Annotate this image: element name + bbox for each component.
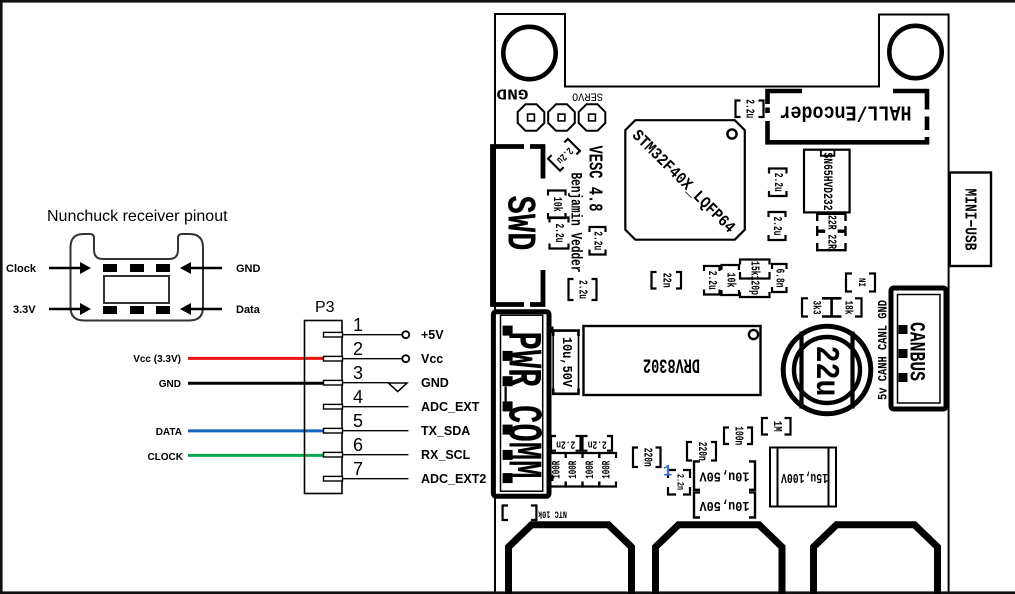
svg-text:1M: 1M bbox=[770, 421, 783, 432]
PWR_COMM pad 4 bbox=[503, 401, 513, 411]
FET pad 3 bbox=[814, 525, 938, 594]
PWR_COMM pad 3 bbox=[503, 376, 513, 386]
svg-text:GND: GND bbox=[421, 376, 449, 390]
wire pin5 bbox=[343, 430, 409, 432]
thermistor NTC 10k bbox=[503, 506, 567, 521]
U1 pin1 dot bbox=[727, 129, 736, 138]
C-22u side chords bbox=[802, 332, 853, 409]
arrow data bbox=[191, 308, 222, 310]
U3 SN65HVD232 body bbox=[804, 150, 850, 213]
capacitor 2.2n (b) bbox=[583, 436, 613, 451]
resistor 10k (right of SWD) bbox=[548, 191, 566, 219]
FET pad 2 bbox=[656, 525, 783, 594]
svg-text:GND: GND bbox=[159, 379, 181, 390]
U2 pin1 dot bbox=[749, 330, 758, 339]
nunchuck connector body bbox=[71, 234, 204, 321]
connector CANBUS inner bbox=[898, 295, 941, 404]
svg-text:+5V: +5V bbox=[421, 328, 444, 342]
wire CLOCK green bbox=[188, 454, 325, 457]
capacitor 2.2n (a) bbox=[551, 436, 581, 451]
capacitor 2.2u (rotated 45, below servo) bbox=[548, 139, 580, 171]
wire GND black bbox=[188, 382, 325, 385]
svg-text:1: 1 bbox=[663, 463, 673, 481]
capacitor 15u,100V bbox=[770, 448, 836, 507]
wire pin6 bbox=[343, 454, 409, 456]
PWR_COMM pad 7 bbox=[503, 473, 513, 483]
wire pin2 to Vcc bbox=[343, 358, 403, 360]
mounting hole top-left bbox=[503, 27, 555, 79]
svg-text:100n: 100n bbox=[732, 426, 745, 445]
connector HALL/Encoder box bbox=[768, 91, 928, 142]
pin pad row bottom bbox=[103, 306, 117, 314]
terminal circle +5V bbox=[402, 331, 409, 338]
PCB bbox=[493, 14, 992, 594]
svg-text:P3: P3 bbox=[315, 299, 335, 316]
svg-text:CLOCK: CLOCK bbox=[147, 452, 183, 463]
svg-text:GND: GND bbox=[497, 85, 529, 102]
capacitor 2.2u (below VESC label) bbox=[590, 227, 606, 255]
wire DATA blue bbox=[188, 429, 325, 432]
svg-text:100R: 100R bbox=[551, 460, 563, 478]
capacitor 2.2n (small, near 10u) bbox=[668, 470, 690, 495]
svg-text:2.2n: 2.2n bbox=[674, 474, 685, 490]
FET pad 1 bbox=[509, 525, 632, 594]
svg-text:SWD: SWD bbox=[496, 196, 542, 251]
wire Vcc red bbox=[188, 357, 325, 360]
svg-text:PWR_COMM: PWR_COMM bbox=[495, 332, 549, 479]
PWR_COMM pad 5 bbox=[503, 425, 513, 435]
svg-text:HALL/Encoder: HALL/Encoder bbox=[780, 100, 912, 123]
capacitor 100n bbox=[724, 426, 752, 445]
servo pad octagon 2 bbox=[548, 104, 575, 131]
U2 DRV8302 body bbox=[584, 326, 761, 395]
svg-text:220n: 220n bbox=[695, 442, 708, 461]
svg-text:100R: 100R bbox=[585, 460, 597, 478]
svg-text:GND: GND bbox=[236, 263, 261, 275]
capacitor 220n (b) bbox=[687, 442, 716, 461]
connector PWR_COMM outer bbox=[493, 312, 549, 497]
resistor 100R #1 bbox=[549, 453, 566, 487]
svg-text:22u: 22u bbox=[807, 346, 844, 397]
connector CANBUS outer bbox=[891, 288, 946, 409]
capacitor C-22u outer ring bbox=[783, 326, 871, 414]
svg-text:SN65HVD232: SN65HVD232 bbox=[820, 153, 834, 211]
svg-text:3.3V: 3.3V bbox=[13, 304, 36, 316]
capacitor C-22u inner ring bbox=[794, 337, 860, 403]
resistor 3k3 bbox=[802, 298, 822, 316]
svg-text:2.2u: 2.2u bbox=[591, 231, 605, 250]
center slot bbox=[104, 276, 169, 303]
svg-text:10k: 10k bbox=[550, 197, 564, 212]
svg-text:2.2n: 2.2n bbox=[556, 437, 575, 449]
PWR_COMM pad 2 bbox=[503, 351, 513, 361]
pin pad 7 bbox=[324, 476, 343, 481]
resistor 100R #2 bbox=[566, 453, 583, 487]
connector PWR_COMM inner bbox=[501, 315, 543, 491]
svg-text:2: 2 bbox=[353, 339, 363, 359]
pin pad 5 bbox=[324, 428, 343, 433]
svg-text:TX_SDA: TX_SDA bbox=[421, 424, 470, 438]
pin pad 6 bbox=[324, 452, 343, 457]
LEFT-DIAGRAM bbox=[6, 208, 325, 463]
capacitor 2.2u (right of SWD) bbox=[550, 218, 569, 249]
svg-text:3k3: 3k3 bbox=[810, 301, 822, 315]
terminal circle Vcc bbox=[402, 355, 409, 362]
svg-text:2.2u: 2.2u bbox=[770, 217, 784, 236]
svg-text:ADC_EXT2: ADC_EXT2 bbox=[421, 472, 486, 486]
CANBUS pad 2 bbox=[899, 349, 908, 358]
pin pad 1 bbox=[324, 332, 343, 337]
svg-text:2.2n: 2.2n bbox=[588, 437, 607, 449]
svg-text:10k: 10k bbox=[723, 273, 737, 288]
svg-text:Vcc: Vcc bbox=[421, 352, 443, 366]
ground symbol bbox=[388, 383, 407, 392]
P3-CONNECTOR bbox=[305, 299, 487, 494]
CANBUS pad 3 bbox=[899, 373, 908, 382]
resistors 22R 22R bbox=[817, 214, 845, 250]
arrow clock bbox=[49, 267, 80, 269]
svg-text:220n: 220n bbox=[640, 448, 653, 467]
svg-text:5v CANH CANL GND: 5v CANH CANL GND bbox=[877, 300, 891, 400]
svg-text:18k: 18k bbox=[842, 301, 854, 315]
pin pad 3 bbox=[324, 380, 343, 385]
capacitor 6.8n (row below U1) bbox=[772, 264, 787, 292]
resistor 100R #3 bbox=[583, 453, 600, 487]
PWR_COMM pad 1 bbox=[503, 326, 513, 336]
wire pin1 to +5V bbox=[343, 334, 403, 336]
wire pin3 to gnd symbol bbox=[343, 382, 390, 384]
wire pin4 bbox=[343, 406, 409, 408]
svg-text:2.2u: 2.2u bbox=[552, 224, 566, 243]
svg-text:100R: 100R bbox=[602, 460, 614, 478]
arrow gnd bbox=[191, 267, 222, 269]
resistor/cap pair 15k 120p bbox=[740, 260, 770, 298]
svg-text:6.8n: 6.8n bbox=[772, 269, 786, 288]
connector body P3 bbox=[305, 321, 343, 494]
PWR_COMM pad 6 bbox=[503, 450, 513, 460]
capacitor 2.2u (right of U1 lower) bbox=[769, 212, 786, 240]
svg-text:NI: NI bbox=[855, 278, 866, 287]
U3 notch bbox=[821, 150, 835, 156]
servo pad octagon 1 bbox=[518, 104, 545, 131]
resistor 10k (row below U1) bbox=[722, 265, 740, 295]
capacitor 22n (below U1) bbox=[652, 272, 682, 289]
capacitor 2.2u (top, near HALL) bbox=[736, 99, 764, 118]
pin pad row top bbox=[103, 264, 117, 272]
svg-text:Nunchuck receiver pinout: Nunchuck receiver pinout bbox=[47, 208, 228, 225]
connector MINI-USB box bbox=[950, 173, 991, 267]
svg-text:DATA: DATA bbox=[156, 427, 182, 438]
svg-text:ADC_EXT: ADC_EXT bbox=[421, 400, 480, 414]
svg-text:Clock: Clock bbox=[6, 263, 37, 275]
svg-text:SERVO: SERVO bbox=[572, 90, 603, 102]
capacitor 10u,50V (left box) bbox=[553, 331, 578, 394]
svg-text:DRV8302: DRV8302 bbox=[643, 353, 700, 376]
svg-text:Data: Data bbox=[236, 304, 261, 316]
capacitor 10u,50V (bottom box 2) bbox=[694, 492, 755, 517]
svg-text:MINI−USB: MINI−USB bbox=[960, 189, 979, 251]
svg-text:2.2u: 2.2u bbox=[705, 271, 719, 290]
wire pin7 bbox=[343, 478, 409, 480]
PWR_COMM right-edge nubs bbox=[549, 327, 554, 334]
svg-text:15u,100V: 15u,100V bbox=[781, 469, 828, 485]
CANBUS pad 1 bbox=[899, 325, 908, 334]
mounting hole top-right bbox=[889, 26, 941, 78]
svg-text:CANBUS: CANBUS bbox=[904, 322, 929, 381]
svg-text:7: 7 bbox=[353, 459, 363, 479]
U1 STM32F40X_LQFP64 chip body bbox=[625, 120, 745, 240]
svg-text:2.2u: 2.2u bbox=[743, 99, 757, 118]
svg-text:22R 22R: 22R 22R bbox=[825, 215, 839, 250]
svg-text:4: 4 bbox=[353, 387, 363, 407]
resistor 18k bbox=[842, 298, 862, 316]
svg-text:5: 5 bbox=[353, 411, 363, 431]
pin pad 2 bbox=[324, 356, 343, 361]
svg-text:15k120p: 15k120p bbox=[748, 261, 762, 295]
pin pad 4 bbox=[324, 404, 343, 409]
svg-text:10u,50V: 10u,50V bbox=[558, 337, 574, 388]
svg-text:NTC 10k: NTC 10k bbox=[538, 507, 567, 519]
svg-text:Vcc (3.3V): Vcc (3.3V) bbox=[133, 354, 181, 365]
resistor NI (not installed) bbox=[846, 274, 875, 292]
svg-text:2.2u: 2.2u bbox=[576, 280, 590, 299]
arrow 3.3V bbox=[49, 308, 80, 310]
connector SWD box bbox=[493, 147, 544, 305]
svg-text:100R: 100R bbox=[568, 460, 580, 478]
resistor 1M bbox=[762, 418, 791, 435]
servo pad octagon 3 bbox=[579, 104, 606, 131]
capacitor 2.2u (above PWR_COMM) bbox=[569, 279, 597, 300]
capacitor 2.2u (row below U1) bbox=[704, 266, 720, 295]
svg-text:VESC 4.8: VESC 4.8 bbox=[584, 146, 606, 212]
svg-text:22n: 22n bbox=[659, 273, 673, 288]
svg-text:RX_SCL: RX_SCL bbox=[421, 448, 471, 462]
shared pads of 3k3/18k bbox=[822, 298, 842, 316]
svg-text:2.2u: 2.2u bbox=[771, 173, 785, 192]
svg-text:10u,50V: 10u,50V bbox=[699, 468, 750, 484]
capacitor 10u,50V (bottom box 1) bbox=[694, 461, 755, 489]
capacitor 220n (a) bbox=[633, 448, 661, 468]
svg-text:3: 3 bbox=[353, 363, 363, 383]
svg-text:10u,50V: 10u,50V bbox=[699, 497, 750, 513]
svg-text:1: 1 bbox=[353, 315, 363, 335]
resistor 100R #4 bbox=[599, 453, 616, 487]
svg-text:6: 6 bbox=[353, 435, 363, 455]
capacitor 2.2u (right of U1 upper) bbox=[769, 169, 787, 197]
board outline bbox=[495, 14, 949, 592]
